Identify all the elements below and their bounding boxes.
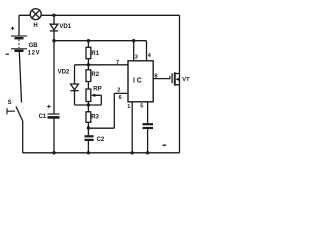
svg-text:R3: R3: [91, 115, 99, 121]
wire switch to bottom rail: [22, 121, 24, 153]
node RP bottom junction: [87, 103, 90, 106]
node C2 bottom rail junction: [87, 151, 90, 154]
wire battery to switch: [19, 51, 21, 103]
IC (555 timer) box: [128, 61, 153, 102]
node pin 1 rail junction: [131, 151, 134, 154]
svg-text:R2: R2: [91, 72, 99, 78]
node top rail / VD1 junction: [52, 14, 55, 17]
resistor R2: [86, 65, 100, 89]
svg-text:C2: C2: [97, 137, 105, 143]
node C1 bottom rail junction: [52, 151, 55, 154]
svg-text:R1: R1: [91, 51, 99, 57]
svg-text:VD1: VD1: [59, 24, 71, 30]
potentiometer RP: [86, 86, 102, 105]
wire left vertical from top rail to battery: [18, 15, 20, 36]
svg-text:VD2: VD2: [58, 69, 70, 75]
wire VD2 bottom horizontal: [75, 104, 102, 106]
wire R3 junction to IC pins 2/6: [88, 93, 128, 128]
svg-text:GB: GB: [29, 43, 39, 49]
diode VD2: [58, 65, 79, 105]
wire pin 3 stub: [133, 41, 135, 61]
svg-text:1: 1: [127, 104, 130, 110]
svg-text:3: 3: [135, 54, 138, 60]
svg-text:8: 8: [155, 74, 158, 80]
capacitor C3 (pin 5 bypass): [143, 124, 154, 153]
resistor R3: [86, 102, 100, 136]
capacitor C1: [39, 105, 60, 153]
svg-text:2: 2: [117, 88, 120, 94]
svg-text:IC: IC: [133, 77, 144, 84]
wire pin 8 to gate: [153, 78, 170, 80]
node R1 top: [87, 39, 90, 42]
svg-text:5: 5: [140, 104, 143, 110]
svg-text:C1: C1: [39, 114, 47, 120]
wire VD2 corner to IC pin 7: [75, 64, 129, 66]
node pin 3 junction: [132, 39, 135, 42]
node R3 bottom junction: [87, 126, 90, 129]
svg-text:6: 6: [119, 95, 122, 101]
wire top rail / right rail / bottom rail: [19, 15, 180, 153]
resistor R1: [86, 41, 100, 65]
wire node A down to C1: [53, 41, 55, 114]
svg-text:S: S: [8, 100, 12, 106]
svg-text:7: 7: [116, 60, 119, 66]
diode VD1: [50, 15, 72, 40]
svg-text:H: H: [33, 23, 37, 29]
wire pin 5 to capacitor: [147, 102, 149, 123]
node C3 bottom rail junction: [146, 151, 149, 154]
stray mark near bottom right: [163, 144, 167, 146]
svg-text:VT: VT: [182, 77, 190, 83]
wire pin 1 to bottom rail: [131, 102, 133, 153]
switch S: [7, 100, 23, 121]
wire horizontal node A to pin4 corner: [54, 40, 147, 42]
lamp H: [30, 9, 41, 29]
battery GB 12V: [6, 27, 41, 57]
wire pin 4 stub: [146, 41, 148, 61]
capacitor C2: [85, 136, 105, 153]
node VD1 bottom junction: [52, 39, 55, 42]
svg-text:12V: 12V: [28, 51, 41, 57]
node R1/R2 junction: [87, 63, 90, 66]
transistor VT (MOSFET): [170, 72, 190, 85]
svg-text:RP: RP: [93, 86, 101, 92]
